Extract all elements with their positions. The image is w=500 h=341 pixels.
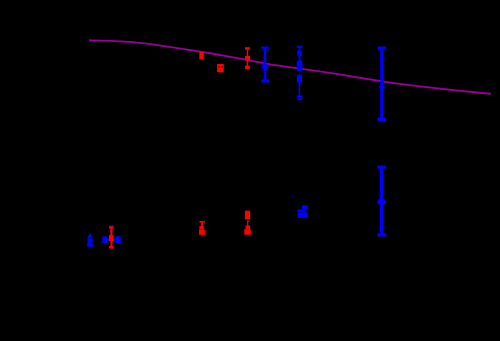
blue horizontal error bar B2 (around red cross) (102, 225, 121, 243)
blue cluster B1 bottom-left (87, 233, 93, 246)
red cross R6 with vertical error bar (109, 226, 114, 248)
red cluster R5 (244, 211, 251, 235)
blue point B3 circle with error bar (261, 47, 269, 83)
theory curve (89, 40, 491, 94)
blue cluster B7 (297, 205, 308, 218)
red point R2 with two dark dots (217, 64, 224, 72)
blue point B6 lower long error bar with diamond (377, 166, 387, 237)
red point R1 (199, 52, 203, 59)
blue point B5 long error bar with diamond (378, 47, 387, 121)
red point R3 with error bar (245, 47, 250, 69)
red cluster R4 (199, 221, 205, 235)
blue cluster B4 (297, 46, 303, 101)
